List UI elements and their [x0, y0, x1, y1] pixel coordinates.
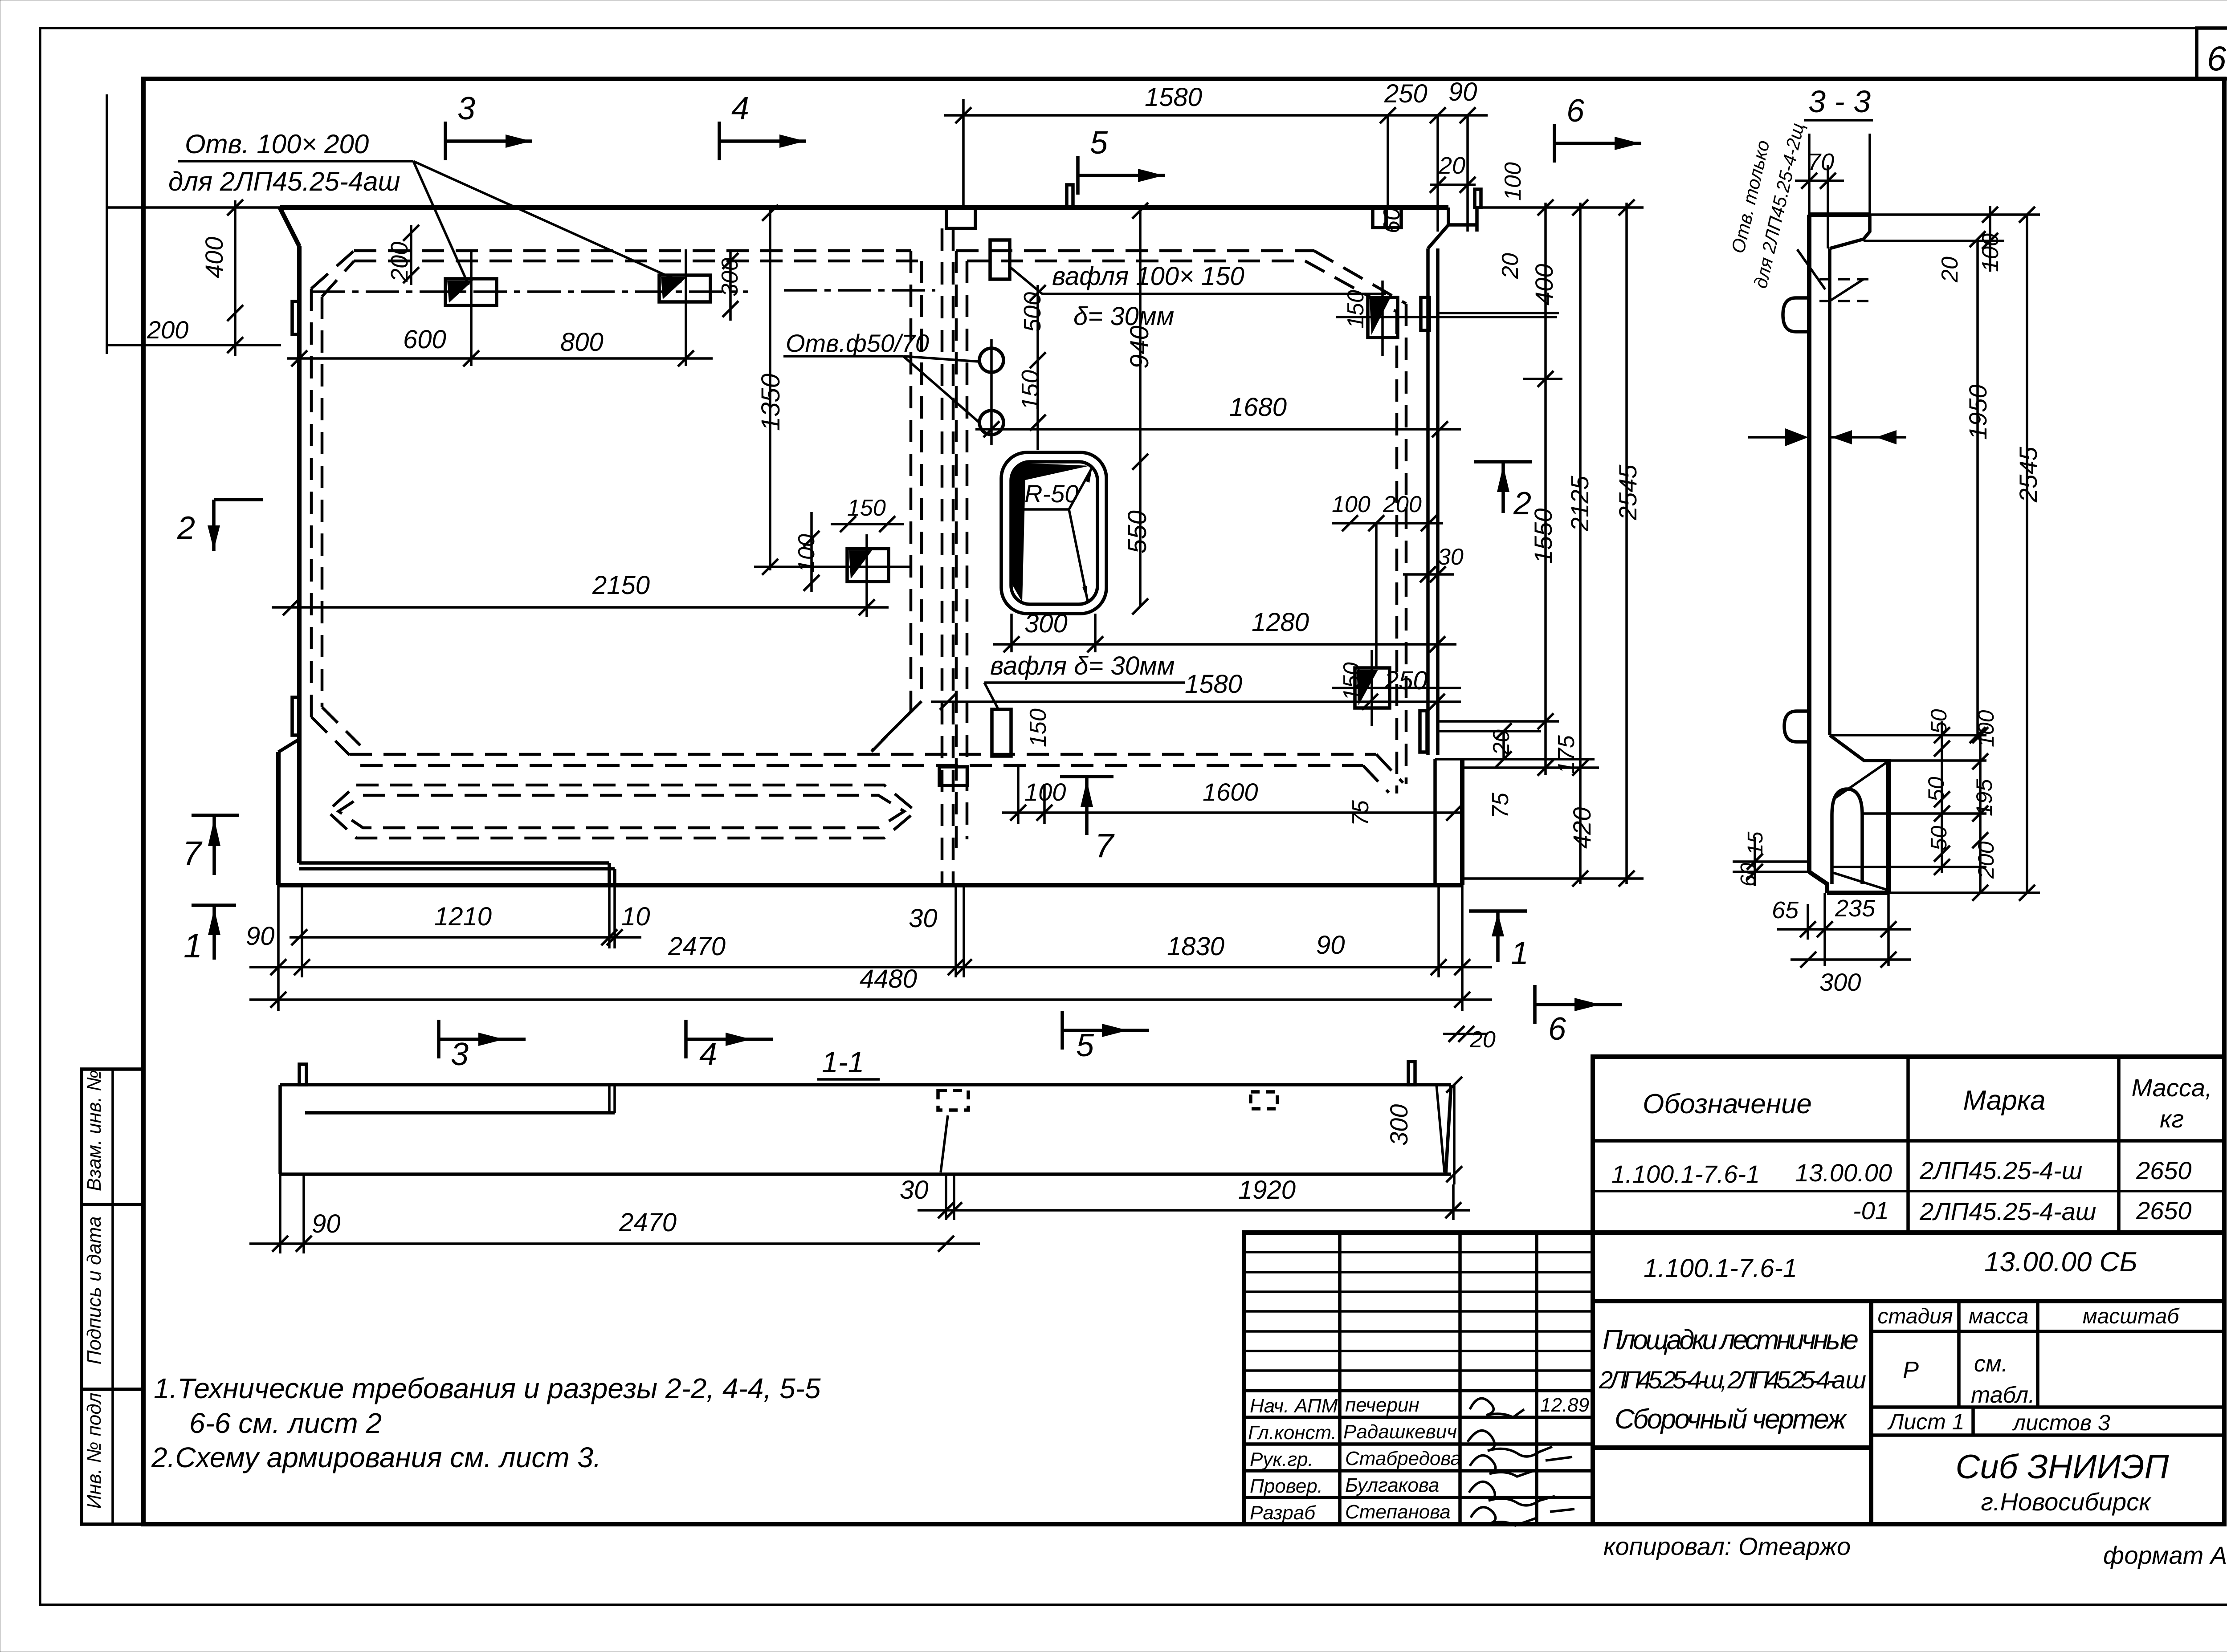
svg-text:400: 400	[200, 237, 228, 278]
svg-text:листов 3: листов 3	[2012, 1410, 2110, 1435]
svg-text:2545: 2545	[1614, 464, 1642, 521]
sec11 ledge	[305, 1111, 615, 1115]
svg-text:2ЛП45.25-4-ш: 2ЛП45.25-4-ш	[1919, 1156, 2082, 1184]
plate near A4	[1421, 297, 1429, 330]
svg-text:550: 550	[1123, 510, 1152, 553]
section flag 2 right	[1474, 462, 1532, 521]
svg-text:300: 300	[1819, 968, 1861, 996]
svg-text:300: 300	[1385, 1104, 1413, 1146]
svg-text:940: 940	[1125, 326, 1154, 369]
plan left edge upper	[297, 246, 302, 863]
svg-text:150: 150	[1025, 708, 1051, 747]
sec33 dim 100 20 top	[1864, 206, 2040, 283]
svg-text:400: 400	[1530, 264, 1558, 305]
sec11 top edge	[280, 1083, 1451, 1086]
svg-text:300: 300	[1024, 609, 1068, 638]
svg-text:50: 50	[1926, 826, 1951, 850]
svg-text:4: 4	[731, 91, 749, 126]
dim 4480	[249, 964, 1492, 1008]
svg-text:30: 30	[1438, 544, 1464, 570]
svg-text:3: 3	[457, 91, 475, 126]
svg-text:Площадки лестничные: Площадки лестничные	[1603, 1325, 1859, 1355]
svg-text:100: 100	[1974, 710, 1999, 747]
upper table row line	[1593, 1190, 2224, 1192]
svg-text:3 - 3: 3 - 3	[1808, 84, 1871, 119]
svg-text:1600: 1600	[1203, 778, 1258, 806]
svg-text:5: 5	[1076, 1028, 1094, 1063]
sec33 web flare	[1830, 735, 1888, 761]
signature squiggle 5	[1471, 1507, 1574, 1526]
right panel dashed top-right chamfer	[1314, 251, 1406, 304]
svg-text:150: 150	[847, 495, 886, 521]
plan right lower edge	[1433, 759, 1437, 885]
svg-text:12.89: 12.89	[1540, 1394, 1589, 1416]
rib step	[608, 863, 611, 885]
svg-text:Отв.ф50/70: Отв.ф50/70	[786, 329, 929, 357]
stamp doc cell line	[1593, 1299, 2224, 1303]
plan left step	[278, 739, 299, 752]
top pin right	[1475, 189, 1481, 208]
small dims top right 60 100 20 400	[1379, 162, 1526, 279]
sec33 direction arrow	[1748, 436, 1805, 439]
plan right edge plate	[1420, 711, 1427, 752]
section flag 6 top	[1554, 93, 1641, 163]
anchor A4 axes	[1381, 281, 1384, 356]
vaflya plates top right	[1373, 208, 1386, 228]
svg-text:вафля 100× 150: вафля 100× 150	[1052, 262, 1244, 291]
svg-text:δ= 30мм: δ= 30мм	[1073, 302, 1174, 331]
anchor mark A2	[659, 275, 710, 302]
sec33 right lower edge	[1886, 759, 1891, 893]
svg-text:Разраб: Разраб	[1250, 1502, 1316, 1524]
anchor A3 axes	[865, 534, 868, 617]
sec11 right pin	[1408, 1062, 1415, 1085]
anchors centerline	[312, 290, 748, 293]
signature squiggle 3	[1470, 1455, 1572, 1477]
sec33 dim 300	[1791, 952, 1911, 996]
svg-text:1830: 1830	[1167, 932, 1224, 961]
svg-text:90: 90	[312, 1209, 341, 1238]
svg-text:1.Технические требования и: 1.Технические требования и разрезы 2-2, …	[154, 1372, 821, 1404]
svg-text:65: 65	[1772, 897, 1799, 924]
top pin left	[1067, 185, 1073, 208]
left panel dashed right	[910, 251, 913, 712]
sec33 dim 65 235	[1772, 893, 1911, 966]
right chain 2545	[1462, 199, 1644, 887]
svg-text:4480: 4480	[860, 964, 917, 993]
svg-text:7: 7	[183, 834, 203, 872]
sec33 hook top	[1783, 298, 1809, 332]
svg-text:50: 50	[1924, 777, 1949, 802]
right panel dashed right	[1405, 304, 1408, 784]
hole leaders	[1069, 468, 1092, 509]
sec11 dim 90 2470	[249, 1174, 980, 1253]
dim 600 800	[287, 325, 713, 366]
hole inner	[1011, 462, 1097, 604]
sec33 bottom edge	[1827, 891, 1888, 895]
svg-text:200: 200	[1383, 492, 1422, 517]
anchor mark A5	[1355, 668, 1390, 708]
sec11 dim 300	[1385, 1077, 1462, 1184]
svg-text:100: 100	[1024, 778, 1066, 806]
sec11 right end	[1446, 1085, 1451, 1174]
svg-text:75: 75	[1348, 800, 1374, 826]
svg-text:Рук.гр.: Рук.гр.	[1250, 1449, 1313, 1470]
svg-text:2470: 2470	[619, 1208, 677, 1237]
vaflya plate bottom mid	[992, 709, 1011, 756]
svg-text:Нач. АПМ.: Нач. АПМ.	[1250, 1395, 1343, 1417]
sec33 tick arrows	[1830, 436, 1906, 439]
left panel dashed top-left chamfer	[311, 251, 354, 289]
svg-text:250: 250	[1384, 79, 1428, 108]
svg-text:масштаб: масштаб	[2083, 1305, 2180, 1328]
svg-text:масса: масса	[1969, 1305, 2028, 1328]
stadia massa masshtab header	[1871, 1330, 2224, 1333]
svg-text:2ЛП45.25-4-ш, 2ЛП45.25-4-а ш: 2ЛП45.25-4-ш, 2ЛП45.25-4-а ш	[1599, 1366, 1866, 1394]
svg-text:Сборочный чертеж: Сборочный чертеж	[1615, 1404, 1847, 1435]
signature squiggle 4	[1469, 1482, 1555, 1506]
dim 100 1600 75	[1002, 766, 1462, 826]
plan left plate upper	[292, 301, 299, 334]
dim 20 top right	[1430, 152, 1476, 193]
sig col 3	[1535, 1233, 1538, 1524]
svg-text:Сиб ЗНИИЭП: Сиб ЗНИИЭП	[1955, 1448, 2169, 1486]
svg-text:200: 200	[147, 316, 188, 344]
svg-text:1: 1	[184, 927, 202, 965]
svg-text:90: 90	[1448, 77, 1477, 106]
right panel dashed top	[956, 249, 1314, 252]
sec33 flange top right	[1830, 215, 1870, 248]
dim 90 2470 30 1830 90	[246, 885, 1492, 1011]
sec33 dim 70	[1795, 149, 1844, 189]
sec33 dim 100 195 200	[1972, 710, 1999, 901]
plan bottom edge	[278, 883, 1462, 887]
svg-text:20: 20	[1937, 256, 1963, 283]
sig col 2	[1458, 1233, 1462, 1524]
svg-text:Отв. 100× 200: Отв. 100× 200	[185, 129, 369, 159]
dim 100 200 30 right panel	[1332, 492, 1464, 668]
svg-text:90: 90	[1316, 931, 1345, 960]
svg-text:30: 30	[909, 904, 938, 933]
svg-text:235: 235	[1835, 895, 1876, 922]
svg-text:150: 150	[1339, 662, 1365, 701]
svg-text:60: 60	[1379, 208, 1405, 233]
svg-text:Масса,: Масса,	[2131, 1074, 2212, 1102]
plan right ledge	[1438, 730, 1541, 732]
leaders to anchors	[413, 161, 469, 285]
sec33 rib arch	[1832, 789, 1862, 884]
plan left edge lower	[276, 752, 281, 885]
sec33 ext lines top	[1808, 134, 1811, 215]
svg-text:Взам. инв. №: Взам. инв. №	[83, 1070, 105, 1191]
svg-text:1580: 1580	[1145, 83, 1202, 112]
note leader	[1797, 249, 1825, 289]
svg-text:150: 150	[1343, 290, 1369, 329]
svg-text:2: 2	[1513, 486, 1531, 521]
signature squiggle 2	[1468, 1431, 1552, 1457]
svg-text:Радашкевич: Радашкевич	[1343, 1421, 1457, 1443]
upper table column massa	[2117, 1057, 2121, 1233]
svg-text:20: 20	[1489, 729, 1514, 756]
svg-text:2545: 2545	[2014, 447, 2042, 503]
svg-text:100: 100	[1978, 233, 2003, 272]
svg-text:кг: кг	[2160, 1105, 2184, 1133]
dim chain top 1580 250 90	[944, 77, 1488, 232]
stamp title cell bottom	[1593, 1445, 1871, 1450]
svg-text:-01: -01	[1853, 1196, 1889, 1225]
right chain 2125 420	[1462, 199, 1599, 887]
sec11 bottom edge	[280, 1172, 1451, 1176]
svg-text:200: 200	[1974, 841, 1999, 879]
svg-text:195: 195	[1972, 779, 1997, 816]
sec11 dashed plate right	[1251, 1092, 1277, 1109]
plan top right recess diagonal	[1428, 225, 1448, 248]
svg-text:1280: 1280	[1252, 608, 1309, 637]
dim 940 550	[1123, 203, 1154, 614]
svg-text:2.Схему армирования см. лист: 2.Схему армирования см. лист 3.	[151, 1441, 601, 1473]
svg-text:20: 20	[1438, 152, 1465, 179]
svg-text:2: 2	[177, 510, 195, 546]
svg-text:20: 20	[1497, 253, 1523, 279]
sec11 left pin	[299, 1064, 306, 1085]
svg-text:6-6 см. лист 2: 6-6 см. лист 2	[189, 1407, 382, 1439]
svg-text:2150: 2150	[592, 571, 650, 600]
svg-text:13.00.00: 13.00.00	[1795, 1159, 1892, 1187]
svg-text:Степанова: Степанова	[1345, 1501, 1451, 1523]
sig col 1	[1338, 1233, 1342, 1524]
plan top edge	[280, 205, 1448, 210]
svg-text:6: 6	[1548, 1011, 1566, 1047]
svg-text:70: 70	[1807, 149, 1834, 175]
dim 1580 250 bottom	[931, 666, 1461, 710]
dim 1680	[975, 393, 1461, 437]
dim 300 1280	[993, 608, 1456, 652]
sig thin rows	[1244, 1251, 1593, 1253]
svg-text:2125: 2125	[1566, 476, 1594, 532]
svg-text:Гл.конст.: Гл.конст.	[1248, 1422, 1337, 1444]
svg-text:3: 3	[451, 1037, 469, 1072]
svg-text:1580: 1580	[1185, 670, 1242, 699]
vaflya plate divider bottom	[939, 767, 967, 785]
dashed bottom run	[350, 753, 1376, 756]
right panel dashed bottom-right chamfer	[1376, 754, 1403, 783]
svg-text:100: 100	[1332, 492, 1370, 517]
sec11 divider plate dashed	[938, 1090, 968, 1110]
anchor mark A4	[1368, 297, 1398, 338]
anchor mark A1	[445, 279, 497, 305]
svg-text:1920: 1920	[1238, 1176, 1296, 1204]
hole outer	[1001, 452, 1106, 614]
dim 2150	[272, 571, 889, 615]
main stamp frame	[1244, 1233, 2224, 1524]
stamp signature area right edge	[1591, 1233, 1595, 1524]
sec11 divider slant	[941, 1115, 948, 1172]
svg-text:500: 500	[1019, 292, 1046, 332]
svg-text:формат А3: формат А3	[2103, 1541, 2227, 1569]
svg-text:копировал: Отеаржо: копировал: Отеаржо	[1603, 1532, 1851, 1560]
section flag 5 top	[1078, 125, 1165, 195]
upper table frame	[1593, 1057, 2224, 1233]
right panel dashed left	[955, 251, 958, 848]
left panel dashed top	[354, 249, 911, 252]
anchor A2 vertical axis	[685, 249, 687, 366]
sec33 left edge	[1807, 215, 1811, 872]
svg-text:75: 75	[1488, 792, 1513, 818]
svg-text:1680: 1680	[1229, 393, 1287, 422]
svg-text:30: 30	[900, 1176, 929, 1204]
svg-text:67: 67	[2207, 39, 2227, 78]
svg-text:Марка: Марка	[1963, 1085, 2045, 1116]
divider notch rect	[946, 208, 975, 228]
page number box	[2197, 28, 2227, 79]
left panel dashed left	[310, 289, 313, 717]
sec33 bottom step	[1809, 872, 1827, 893]
svg-text:1.100.1-7.6-1: 1.100.1-7.6-1	[1611, 1160, 1760, 1188]
section flag 3 top	[445, 91, 532, 160]
svg-text:Р: Р	[1903, 1357, 1919, 1383]
svg-text:10: 10	[621, 902, 650, 931]
anchor A1 vertical axis	[470, 249, 473, 366]
svg-text:R-50: R-50	[1024, 480, 1078, 508]
svg-text:Инв. № подл: Инв. № подл	[83, 1393, 105, 1509]
rib hexagon outer dashed	[327, 785, 916, 838]
sec33 ext lines bottom right	[1830, 734, 1986, 736]
svg-text:150: 150	[1017, 370, 1044, 410]
anchor A5 axes	[1370, 650, 1373, 726]
sec33 dim 50 50 50	[1924, 709, 1951, 875]
section flag 7 mid	[1060, 777, 1115, 865]
vaflya plate top mid	[990, 240, 1010, 279]
section flag 7 left	[183, 815, 239, 875]
stamp right column split	[1869, 1301, 1873, 1524]
svg-text:2650: 2650	[2136, 1196, 2192, 1225]
anchor mark A3	[847, 549, 889, 582]
svg-text:420: 420	[1568, 807, 1596, 849]
svg-text:100: 100	[794, 534, 820, 573]
sec33 top edge	[1809, 212, 1870, 217]
upper table column marka	[1906, 1057, 1910, 1233]
svg-text:2650: 2650	[2136, 1156, 2192, 1184]
svg-text:1350: 1350	[756, 374, 785, 431]
dim 20 bottom right	[1443, 1026, 1496, 1053]
section flag 4 top	[719, 91, 806, 160]
divider dashed	[941, 228, 944, 884]
hole crescent fill	[1010, 463, 1090, 602]
list row	[1871, 1405, 2224, 1409]
left panel dashed bottom-right chamfer	[866, 712, 911, 757]
section flag 6 bottom	[1535, 985, 1622, 1047]
section flag 2 left	[177, 500, 263, 551]
holes f50	[979, 348, 1003, 372]
dim chain left 400 200	[107, 94, 281, 356]
right chain 400 1550 175	[1438, 199, 1579, 776]
sec33 hook bottom	[1784, 711, 1809, 742]
svg-text:см.: см.	[1974, 1351, 2008, 1377]
svg-text:1-1: 1-1	[822, 1046, 864, 1078]
plan top right step	[1448, 208, 1477, 232]
sig row lines	[1244, 1389, 1593, 1392]
dim 1210 10	[290, 885, 650, 948]
sec11 dim 30 1920	[900, 1174, 1470, 1220]
svg-text:13.00.00 СБ: 13.00.00 СБ	[1984, 1247, 2137, 1278]
svg-text:50: 50	[1926, 709, 1951, 734]
sec11 left edge	[278, 1085, 282, 1174]
svg-text:1950: 1950	[1964, 384, 1992, 440]
holes f50 axis	[990, 339, 993, 445]
section flag 3 bottom	[439, 1020, 526, 1072]
svg-text:вафля δ= 30мм: вафля δ= 30мм	[990, 651, 1175, 680]
svg-text:Подпись и дата: Подпись и дата	[83, 1217, 105, 1365]
svg-text:2ЛП45.25-4-аш: 2ЛП45.25-4-аш	[1919, 1197, 2096, 1225]
svg-text:Булгакова: Булгакова	[1345, 1474, 1439, 1496]
svg-text:100: 100	[1500, 162, 1526, 201]
svg-text:1550: 1550	[1529, 508, 1557, 564]
section flag 1 right	[1469, 911, 1529, 971]
plan right edge double	[1426, 248, 1430, 755]
svg-text:Лист 1: Лист 1	[1887, 1409, 1964, 1434]
svg-text:5: 5	[1090, 125, 1108, 161]
svg-text:г.Новосибирск: г.Новосибирск	[1981, 1488, 2152, 1516]
svg-text:1: 1	[1511, 936, 1529, 971]
svg-text:стадия: стадия	[1877, 1305, 1953, 1328]
rib hexagon inner dashed	[339, 795, 904, 828]
dim 1350	[756, 205, 785, 575]
small dims right edge 20 75	[1488, 723, 1514, 818]
dim 200 at anchor A1	[386, 225, 419, 285]
section flag 4 bottom	[686, 1020, 773, 1072]
section flag 1 left	[184, 905, 236, 965]
sec33 arch diagonals	[1833, 762, 1887, 799]
upper table header line	[1593, 1139, 2224, 1143]
svg-text:7: 7	[1095, 827, 1115, 865]
left panel dashed bottom-left chamfer	[311, 717, 350, 755]
svg-text:90: 90	[246, 922, 275, 951]
svg-text:15: 15	[1744, 831, 1767, 855]
svg-text:печерин: печерин	[1345, 1394, 1419, 1416]
svg-text:1.100.1-7.6-1: 1.100.1-7.6-1	[1644, 1254, 1797, 1283]
sec33 hole dashdot	[1819, 278, 1873, 281]
sec33 inner web	[1828, 248, 1831, 735]
svg-text:Обозначение: Обозначение	[1643, 1089, 1812, 1119]
svg-text:2470: 2470	[668, 932, 726, 961]
svg-text:1210: 1210	[434, 902, 492, 931]
svg-text:Провер.: Провер.	[1250, 1475, 1323, 1497]
svg-text:800: 800	[560, 328, 604, 357]
rib ledge top	[299, 861, 609, 865]
sec33 dim 2545	[2014, 207, 2042, 901]
svg-text:250: 250	[1384, 666, 1428, 695]
svg-text:для 2ЛП45.25-4аш: для 2ЛП45.25-4аш	[168, 167, 400, 196]
svg-text:6: 6	[1566, 93, 1585, 129]
svg-text:табл.: табл.	[1971, 1382, 2035, 1408]
dim 150 100 at A3	[794, 495, 904, 592]
svg-text:60: 60	[1737, 863, 1760, 887]
plan left chamfer	[280, 208, 299, 246]
section flag 5 bottom	[1062, 1011, 1149, 1063]
svg-text:4: 4	[699, 1037, 717, 1072]
svg-text:200: 200	[386, 242, 413, 282]
sec33 dims 15 60 left	[1733, 831, 1809, 887]
left stamp column	[82, 1069, 143, 1524]
svg-text:20: 20	[1469, 1027, 1496, 1053]
sec33 dim 1950	[1964, 231, 1992, 743]
svg-text:600: 600	[403, 325, 446, 354]
signature squiggle 1	[1470, 1398, 1524, 1417]
plan left plate lower	[292, 697, 299, 735]
dim 500 150 circles	[1017, 285, 1046, 450]
svg-text:Стабредова: Стабредова	[1345, 1448, 1461, 1469]
